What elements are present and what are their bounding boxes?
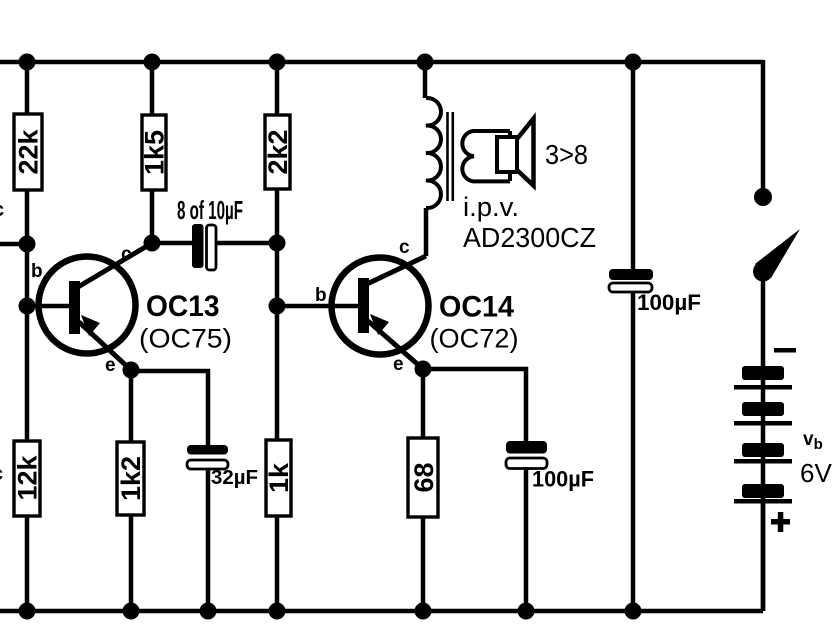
svg-text:1k: 1k [264,462,294,493]
wire 1k bottom lead [275,516,280,611]
svg-text:OC14: OC14 [439,291,514,324]
svg-text:2k2: 2k2 [263,129,293,174]
svg-text:68: 68 [409,462,439,492]
svg-text:OC13: OC13 [146,290,220,323]
svg-text:c: c [121,244,132,265]
svg-text:100µF: 100µF [532,467,594,492]
transistor Q1 OC13 [39,243,153,370]
capacitor 32uF [187,445,228,469]
wire 22k top lead [25,62,30,114]
wire 2k2 bottom through nodes to 1k [275,189,280,440]
svg-text:100µF: 100µF [637,290,701,315]
switch blade [755,229,800,278]
capacitor 100uF emitter [506,441,547,469]
junction dot bottom rail x208 [200,603,217,620]
transformer secondary winding [462,131,510,181]
transistor Q2 OC14 [332,256,429,369]
wire bottom ground rail [0,609,763,614]
junction dot top rail x152 [144,54,161,71]
wire switch to battery [761,276,766,611]
svg-text:AD2300CZ: AD2300CZ [463,222,596,253]
resistor 12k [13,441,43,516]
battery cell plates [734,366,792,504]
svg-text:(OC75): (OC75) [139,324,232,354]
resistor 22k [14,114,44,190]
wire top supply rail [0,60,763,65]
wire 68 bottom lead [421,517,426,611]
wire 22k bottom to 12k top [25,190,30,441]
junction dot emitter OC13 [123,362,140,379]
resistor 1k2 [116,442,146,515]
wire coil top lead [423,62,428,98]
junction dot top rail x425 [417,54,434,71]
svg-text:i.p.v.: i.p.v. [463,192,519,222]
wire emitter node down to 68 [421,369,426,438]
wire emitter node to 100uF [423,369,526,441]
junction dot bottom rail x131 [123,603,140,620]
junction dot top rail x27 [19,54,36,71]
wire base OC14 [277,304,359,309]
wire 1k5 bottom to collector node [150,190,155,243]
junction dot x277 y243 [269,235,286,252]
wire base OC13 [27,304,70,309]
resistor 1k [264,440,294,516]
inductor transformer primary coil [426,98,441,208]
svg-text:1k2: 1k2 [116,456,146,501]
wire 1k2 bottom lead [129,515,134,611]
wire stub to left edge [0,242,27,247]
wire main 100uF bottom lead [631,292,636,611]
junction dot emitter OC14 [415,361,432,378]
junction dot top rail x633 [625,54,642,71]
resistor 68 [408,438,439,517]
wire 100uF bottom lead [524,467,529,611]
junction dot bottom rail x277 [269,603,286,620]
wire emitter node down to 1k2 [129,370,134,442]
wire 2k2 top lead [275,62,280,115]
switch top contact dot [754,188,772,206]
svg-text:c: c [0,463,3,485]
wire main 100uF top lead [631,62,636,269]
junction dot x27 y306 [19,298,36,315]
junction dot x27 y244 [19,236,36,253]
junction dot x277 y306 [269,298,286,315]
battery minus sign [774,348,796,353]
svg-text:e: e [393,354,404,375]
wire 1k5 top lead [150,62,155,115]
capacitor 8 of 10uF [192,224,216,270]
wire battery bottom to rail [761,503,766,611]
resistor 1k5 [140,115,170,190]
junction dot top rail x277 [269,54,286,71]
svg-text:c: c [0,199,4,221]
wire right rail down to switch [761,60,766,192]
junction dot bottom rail x633 [625,603,642,620]
wire 12k bottom lead [25,516,30,611]
svg-text:22k: 22k [14,128,44,174]
svg-text:6V: 6V [800,458,832,488]
wire collector OC14 up to coil [424,208,429,256]
svg-text:32µF: 32µF [211,467,258,489]
svg-text:1k5: 1k5 [140,130,170,175]
junction dot bottom rail x423 [415,603,432,620]
loudspeaker [497,119,534,186]
battery plus sign [771,512,790,532]
svg-text:(OC72): (OC72) [430,324,519,354]
resistor 2k2 [263,115,293,189]
svg-text:3>8: 3>8 [545,139,588,170]
svg-text:e: e [105,355,116,376]
wire 32uF bottom lead [206,469,211,611]
junction dot bottom rail x27 [19,603,36,620]
capacitor 100uF supply [609,269,653,292]
svg-text:b: b [31,261,43,282]
transformer core lines [448,112,453,201]
junction dot bottom rail x526 [518,603,535,620]
wire emitter node to 32uF [131,371,208,445]
svg-text:12k: 12k [13,454,43,500]
wire capacitor to 2k2 branch [216,241,277,246]
wire collector node to capacitor [152,241,192,246]
svg-text:8 of 10µF: 8 of 10µF [177,195,243,225]
junction dot collector node x152 y243 [144,235,161,252]
svg-text:c: c [399,237,410,258]
switch pivot dot [753,262,773,282]
svg-text:b: b [315,285,327,306]
